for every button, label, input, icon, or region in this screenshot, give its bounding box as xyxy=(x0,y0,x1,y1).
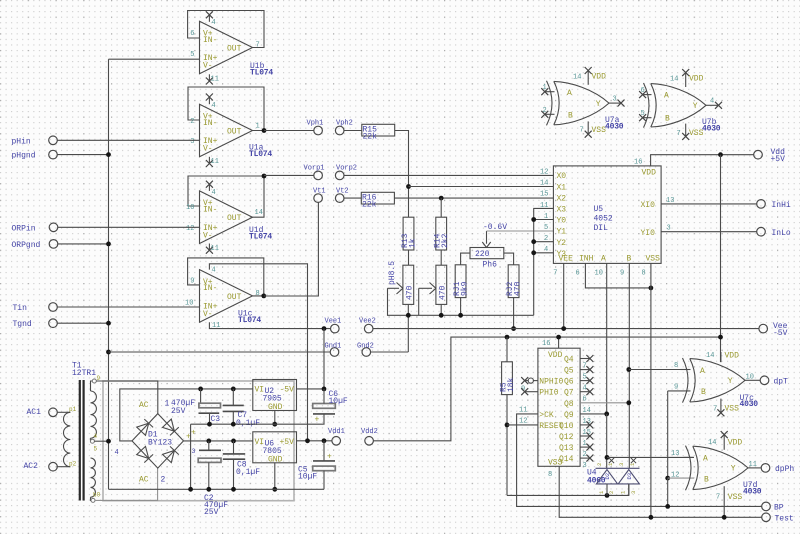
wire net pHin to U1b IN+ bus corner xyxy=(109,58,200,60)
svg-text:Y: Y xyxy=(693,102,698,111)
wire trafo top to bridge xyxy=(96,381,158,414)
pin Vorp2 xyxy=(335,165,357,180)
svg-text:XI0: XI0 xyxy=(641,201,656,210)
svg-text:B: B xyxy=(704,476,709,485)
wire U4 VDD stub xyxy=(558,337,560,348)
wire Y0 stub xyxy=(534,219,554,221)
node trimmer1 row xyxy=(406,313,411,318)
node U4 VDD rail xyxy=(556,335,561,340)
pin Gnd1 xyxy=(325,343,342,357)
capacitor C5 xyxy=(298,441,335,490)
svg-text:1: 1 xyxy=(543,84,547,92)
wire U5 B stub bus xyxy=(628,263,630,468)
node U1c V+ riser xyxy=(305,438,310,443)
pin Vph1 xyxy=(307,120,324,135)
node center tap bus xyxy=(106,439,111,444)
svg-text:Ph6: Ph6 xyxy=(483,261,498,270)
regulator IU6 7805 xyxy=(253,432,297,465)
node C7 bottom xyxy=(231,422,236,427)
svg-text:0,1µF: 0,1µF xyxy=(236,468,260,477)
svg-text:Vt2: Vt2 xyxy=(336,187,349,195)
svg-text:5: 5 xyxy=(544,224,548,232)
svg-text:VDD: VDD xyxy=(592,73,607,82)
svg-text:2: 2 xyxy=(543,107,547,115)
svg-text:Q6: Q6 xyxy=(564,378,574,387)
pin dpPh xyxy=(761,464,794,474)
resistor R5 xyxy=(500,362,517,395)
svg-text:A: A xyxy=(700,367,705,376)
node Q9 A bus xyxy=(604,412,609,417)
wire R14 to trimmer xyxy=(440,250,442,265)
svg-text:15: 15 xyxy=(540,191,548,199)
svg-text:A: A xyxy=(567,89,572,98)
wire U5 XI0 to InHi xyxy=(661,203,757,205)
node INH to VSS xyxy=(649,286,654,291)
op-amp U1d xyxy=(186,176,272,254)
svg-text:14: 14 xyxy=(540,180,548,188)
svg-text:+: + xyxy=(191,429,196,438)
svg-text:11: 11 xyxy=(749,461,757,469)
node Test row U7d VSS xyxy=(722,515,727,520)
svg-text:X0: X0 xyxy=(557,172,567,181)
svg-text:AC1: AC1 xyxy=(27,408,42,417)
svg-text:InHi: InHi xyxy=(772,201,791,210)
svg-text:14: 14 xyxy=(573,73,581,81)
oscillator element D2 xyxy=(596,462,640,495)
svg-text:Gnd2: Gnd2 xyxy=(357,343,374,351)
wire U5 INH stub xyxy=(585,263,651,288)
svg-text:U5: U5 xyxy=(594,205,604,214)
svg-text:14: 14 xyxy=(670,75,678,83)
svg-text:14: 14 xyxy=(255,209,263,217)
svg-text:18k: 18k xyxy=(507,377,516,392)
svg-text:INH: INH xyxy=(579,254,594,263)
node Vee1 riser xyxy=(322,326,327,331)
svg-text:4030: 4030 xyxy=(743,487,762,496)
svg-text:470: 470 xyxy=(514,281,523,296)
wire U1c pin4 +5V riser xyxy=(209,264,307,441)
trimmer Ph6 220 xyxy=(470,223,507,270)
regulator IU2 7905 xyxy=(253,380,297,413)
pin Vt2 xyxy=(335,187,348,202)
svg-text:VI: VI xyxy=(255,385,265,394)
svg-text:16: 16 xyxy=(634,159,642,167)
wire U4 VSS stub to Test row xyxy=(559,466,762,517)
resistor RJ2 xyxy=(506,265,523,298)
wire Vdd2 to riser xyxy=(373,337,720,441)
svg-text:ORPgnd: ORPgnd xyxy=(12,241,41,250)
svg-text:12: 12 xyxy=(671,471,679,479)
svg-text:Vorp1: Vorp1 xyxy=(304,165,325,173)
svg-text:InLo: InLo xyxy=(772,229,791,238)
wire bus to Gnd1 xyxy=(109,351,331,353)
pin ORPin xyxy=(12,223,200,233)
svg-text:3: 3 xyxy=(613,95,617,103)
pin Vee -5V xyxy=(759,322,788,338)
pin U4 PHI0 xyxy=(521,388,538,395)
wire R13 to trimmer pH8.5 xyxy=(408,250,410,265)
wire U1c out to Vt1 riser xyxy=(264,202,319,296)
wire Vph2 to R15 xyxy=(344,130,362,132)
svg-text:8: 8 xyxy=(674,362,678,370)
svg-text:-5V: -5V xyxy=(280,385,295,394)
svg-text:IN-: IN- xyxy=(203,284,217,293)
op-amp U1a xyxy=(188,87,272,167)
svg-text:6: 6 xyxy=(576,270,580,278)
pin AC2 xyxy=(24,462,71,471)
trimmer 470 second xyxy=(419,265,448,304)
svg-text:16: 16 xyxy=(542,340,550,348)
svg-text:3: 3 xyxy=(630,491,637,494)
svg-text:IN-: IN- xyxy=(203,119,217,128)
counter U4 4060 xyxy=(519,340,606,486)
svg-text:470: 470 xyxy=(406,285,415,300)
svg-text:7: 7 xyxy=(256,42,260,50)
svg-text:470: 470 xyxy=(439,285,448,300)
svg-text:Q5: Q5 xyxy=(564,367,574,376)
svg-text:14: 14 xyxy=(708,439,716,447)
wire B bus to BP row xyxy=(667,478,669,506)
wire R5 bottom to RESET xyxy=(506,395,508,496)
svg-text:B: B xyxy=(568,111,573,120)
svg-text:7: 7 xyxy=(713,405,717,413)
svg-text:X1: X1 xyxy=(557,183,567,192)
svg-text:OUT: OUT xyxy=(227,293,242,302)
pin Test xyxy=(762,513,794,523)
svg-text:2: 2 xyxy=(190,118,194,126)
node U1c output junction xyxy=(261,294,266,299)
node Y3 tie xyxy=(531,250,536,255)
svg-text:3: 3 xyxy=(618,463,625,466)
pin Vee1 xyxy=(325,317,342,333)
svg-text:AC2: AC2 xyxy=(24,462,39,471)
svg-text:10: 10 xyxy=(595,270,603,278)
wire trimmer1 bottom xyxy=(407,304,409,352)
node X1 branch xyxy=(406,184,411,189)
node bus ORPgnd xyxy=(106,242,111,247)
trimmer pH8.5 470 xyxy=(388,261,415,305)
svg-text:4030: 4030 xyxy=(605,122,624,131)
svg-text:A: A xyxy=(601,254,606,263)
wire ground bus vertical xyxy=(108,59,110,489)
bridge rectifier D1 BY123 xyxy=(132,400,191,485)
wire U1c pin11 to Vee1 row xyxy=(209,322,330,328)
xor U7c xyxy=(668,351,761,416)
svg-text:Y: Y xyxy=(596,100,601,109)
svg-text:13: 13 xyxy=(671,450,679,458)
node R14 branch xyxy=(439,196,444,201)
node A-bus U7d branch xyxy=(605,455,610,460)
svg-text:3: 3 xyxy=(192,448,196,455)
svg-text:OUT: OUT xyxy=(227,214,242,223)
wire trafo bottom to bridge AC2 xyxy=(95,468,158,500)
svg-text:VDD: VDD xyxy=(642,169,657,178)
svg-text:5: 5 xyxy=(190,51,194,59)
wire R15 out riser to X1/R13 xyxy=(395,131,409,218)
wire U5 VEE stub xyxy=(563,263,565,328)
svg-text:AC: AC xyxy=(139,401,149,410)
svg-text:10µF: 10µF xyxy=(298,473,317,482)
svg-text:NPHI0: NPHI0 xyxy=(539,378,563,387)
svg-text:12: 12 xyxy=(519,418,527,426)
capacitor C7 xyxy=(223,389,260,428)
node C3 bottom xyxy=(207,422,212,427)
svg-text:10µF: 10µF xyxy=(329,397,348,406)
svg-text:V-: V- xyxy=(203,62,213,71)
svg-text:VSS: VSS xyxy=(592,126,607,135)
wire RJ2 bottom to Vee row xyxy=(513,298,515,329)
wire IU2 gnd stub xyxy=(274,411,276,425)
wire U5 A stub to Q9 bus xyxy=(606,263,608,414)
svg-text:pH8.5: pH8.5 xyxy=(388,261,397,285)
svg-text:4030: 4030 xyxy=(740,400,759,409)
svg-text:D2: D2 xyxy=(604,473,611,480)
wire U5 VDD stub to +5V xyxy=(651,155,754,166)
capacitor C8 xyxy=(223,441,260,489)
svg-text:22k: 22k xyxy=(362,200,377,209)
svg-text:AC: AC xyxy=(139,476,149,485)
svg-text:+: + xyxy=(315,416,320,425)
node +5V bus top xyxy=(718,152,723,157)
svg-text:2: 2 xyxy=(608,491,615,494)
pin Vdd +5V xyxy=(754,148,785,164)
node bus pHgnd xyxy=(106,152,111,157)
svg-text:Y: Y xyxy=(731,465,736,474)
svg-text:11: 11 xyxy=(211,76,219,84)
op-amp U1b xyxy=(188,11,274,85)
svg-text:VSS: VSS xyxy=(725,405,740,414)
node BP row B bus xyxy=(665,504,670,509)
pin ORPgnd xyxy=(12,240,109,250)
svg-text:Q7: Q7 xyxy=(564,389,574,398)
svg-text:OUT: OUT xyxy=(227,128,242,137)
resistor R13 xyxy=(401,217,418,250)
resistor R14 xyxy=(434,217,451,250)
svg-text:4030: 4030 xyxy=(702,125,721,134)
svg-text:5: 5 xyxy=(94,446,98,453)
svg-text:6: 6 xyxy=(190,30,194,38)
node bus Gnd1 branch xyxy=(106,350,111,355)
node RJ2 Vee row xyxy=(511,326,516,331)
transformer T1 12TR1 xyxy=(64,362,101,503)
svg-text:8: 8 xyxy=(256,290,260,298)
svg-text:4: 4 xyxy=(115,449,119,457)
node triangle1 bottom xyxy=(605,493,610,498)
wire bridge plus to +raw rail xyxy=(184,440,253,442)
xor U7d xyxy=(671,431,762,517)
svg-text:B: B xyxy=(627,254,632,263)
svg-text:>CK: >CK xyxy=(539,411,554,420)
oscillator element D3 xyxy=(609,458,640,496)
svg-text:TL074: TL074 xyxy=(249,150,272,159)
wire R5 top stub xyxy=(506,337,508,362)
svg-text:10: 10 xyxy=(746,373,754,381)
xor U7b xyxy=(639,69,722,140)
xor U7a xyxy=(541,67,624,138)
svg-text:Tin: Tin xyxy=(13,304,28,313)
svg-text:TL074: TL074 xyxy=(249,233,272,242)
pin Vdd2 xyxy=(361,428,378,445)
svg-text:ORPin: ORPin xyxy=(12,224,36,233)
svg-text:X2: X2 xyxy=(557,194,567,203)
node IU6 gnd rail xyxy=(272,487,277,492)
svg-text:12: 12 xyxy=(186,225,194,233)
node C3 top xyxy=(198,387,203,392)
capacitor C2 xyxy=(191,429,228,518)
svg-text:11: 11 xyxy=(211,158,219,166)
wire A bus down xyxy=(606,414,608,468)
wire ground bottom rail xyxy=(109,488,325,490)
node IU2 gnd xyxy=(272,422,277,427)
svg-text:VDD: VDD xyxy=(548,351,563,360)
svg-text:4: 4 xyxy=(212,19,216,27)
node +raw C2 xyxy=(206,439,211,444)
wire RJ1 top to 220 xyxy=(461,253,470,265)
svg-text:V-: V- xyxy=(203,231,213,240)
node rail C8 xyxy=(231,487,236,492)
svg-text:11: 11 xyxy=(211,245,219,253)
svg-text:IN-: IN- xyxy=(203,36,217,45)
svg-text:DIL: DIL xyxy=(594,224,609,233)
svg-text:VSS: VSS xyxy=(646,254,661,263)
svg-text:A: A xyxy=(664,92,669,101)
resistor R16 xyxy=(361,192,394,209)
wire IU6 out +5V row xyxy=(297,440,332,442)
svg-text:7: 7 xyxy=(716,494,720,502)
svg-text:Vee1: Vee1 xyxy=(325,317,342,325)
node U7d B branch xyxy=(665,476,670,481)
svg-text:D3: D3 xyxy=(626,473,633,480)
svg-text:10: 10 xyxy=(185,299,193,307)
svg-text:25V: 25V xyxy=(171,407,186,416)
svg-text:Q10: Q10 xyxy=(559,422,574,431)
svg-text:9: 9 xyxy=(620,270,624,278)
wire Q8 to B bus xyxy=(580,402,629,404)
wire net VEE Vee2 to right xyxy=(373,328,759,330)
wire net Y1 wiper to U5 xyxy=(487,230,554,232)
svg-text:1k: 1k xyxy=(409,238,418,248)
svg-text:4: 4 xyxy=(212,102,216,110)
svg-text:VDD: VDD xyxy=(728,438,743,447)
node bus Tgnd xyxy=(106,321,111,326)
svg-text:4: 4 xyxy=(212,189,216,197)
svg-text:pHgnd: pHgnd xyxy=(12,152,36,161)
wire IU2 out -5V rail xyxy=(297,388,325,390)
node Test row VSS-U4 xyxy=(649,515,654,520)
pin InHi xyxy=(757,200,791,210)
svg-text:V-: V- xyxy=(203,310,213,319)
wire U1a out to Vph1 xyxy=(264,130,314,132)
node rail gnd-row riser xyxy=(188,487,193,492)
pin Vee2 xyxy=(359,317,376,333)
svg-text:Vph2: Vph2 xyxy=(336,120,353,128)
svg-text:8: 8 xyxy=(642,270,646,278)
pin Vph2 xyxy=(335,120,352,135)
svg-text:pHin: pHin xyxy=(12,137,31,146)
U4 right pins Q4 Q5 Q6 Q7 xyxy=(580,355,593,395)
svg-text:25V: 25V xyxy=(204,508,219,517)
pin dpT xyxy=(760,376,788,386)
wire net X2 R16 to U5 xyxy=(394,197,553,199)
resistor RJ1 xyxy=(453,265,470,298)
svg-text:12TR1: 12TR1 xyxy=(72,369,96,378)
svg-text:Vdd2: Vdd2 xyxy=(361,428,378,436)
node rail C2 xyxy=(206,487,211,492)
pin Vdd1 xyxy=(328,428,345,445)
svg-text:dpT: dpT xyxy=(774,377,789,386)
wire U7c B riser xyxy=(667,391,669,478)
svg-text:7: 7 xyxy=(553,270,557,278)
svg-text:4: 4 xyxy=(710,98,714,106)
op-amp U1c xyxy=(185,258,264,330)
svg-text:VI: VI xyxy=(255,438,265,447)
wire center tap to ground bus xyxy=(94,440,108,442)
svg-text:14: 14 xyxy=(706,352,714,360)
pin U4 NPHI0 xyxy=(521,377,538,384)
wire trimmer1 wiper drop xyxy=(388,288,534,315)
svg-text:A: A xyxy=(703,455,708,464)
svg-text:8: 8 xyxy=(548,471,552,479)
node B-bus U7c A branch xyxy=(626,367,631,372)
svg-text:Vt1: Vt1 xyxy=(313,187,326,195)
svg-text:9: 9 xyxy=(674,384,678,392)
svg-text:Y: Y xyxy=(728,377,733,386)
wire RJ2 top to 220 xyxy=(504,253,514,265)
pin pHin xyxy=(12,136,200,146)
wire Q9 to A bus xyxy=(580,413,607,415)
node Q8 B bus xyxy=(626,400,631,405)
svg-text:Q8: Q8 xyxy=(564,400,574,409)
svg-text:Q13: Q13 xyxy=(559,444,574,453)
svg-text:b0: b0 xyxy=(93,491,101,498)
svg-text:12: 12 xyxy=(540,169,548,177)
svg-text:4052: 4052 xyxy=(594,215,613,224)
wire trimmer2 bottom xyxy=(440,304,442,315)
svg-text:220: 220 xyxy=(475,250,490,259)
svg-text:Vdd1: Vdd1 xyxy=(328,428,345,436)
svg-text:Q9: Q9 xyxy=(564,411,574,420)
svg-text:+5V: +5V xyxy=(280,438,295,447)
svg-text:B: B xyxy=(665,114,670,123)
pin Tin xyxy=(13,303,200,313)
node Y2 tie xyxy=(531,239,536,244)
svg-text:Gnd1: Gnd1 xyxy=(325,343,342,351)
svg-text:0,1µF: 0,1µF xyxy=(236,419,260,428)
svg-text:2: 2 xyxy=(596,463,603,466)
svg-text:5: 5 xyxy=(641,110,645,118)
wire Vee1 riser to -5V rail xyxy=(323,329,325,389)
capacitor C6 xyxy=(313,389,348,425)
node U1a output junction xyxy=(262,128,267,133)
svg-text:Y1: Y1 xyxy=(557,228,567,237)
node +5 bus lower xyxy=(718,335,723,340)
pin AC1 xyxy=(27,408,71,417)
svg-text:VDD: VDD xyxy=(689,75,704,84)
svg-text:X3: X3 xyxy=(557,206,567,215)
U4 right pins Q10 Q12 Q13 Q14 xyxy=(580,421,593,461)
svg-text:Vph1: Vph1 xyxy=(307,120,324,128)
pin InLo xyxy=(757,227,791,237)
pin Tgnd xyxy=(13,319,109,329)
svg-text:Test: Test xyxy=(775,514,794,523)
wire gnd row xyxy=(191,424,324,489)
svg-text:V-: V- xyxy=(203,145,213,154)
pin Gnd2 xyxy=(357,343,374,357)
wire Gnd2 riser joins row (corner at 352) xyxy=(371,351,409,353)
svg-text:10: 10 xyxy=(186,204,194,212)
node +raw C8 xyxy=(231,439,236,444)
svg-text:7: 7 xyxy=(677,130,681,138)
